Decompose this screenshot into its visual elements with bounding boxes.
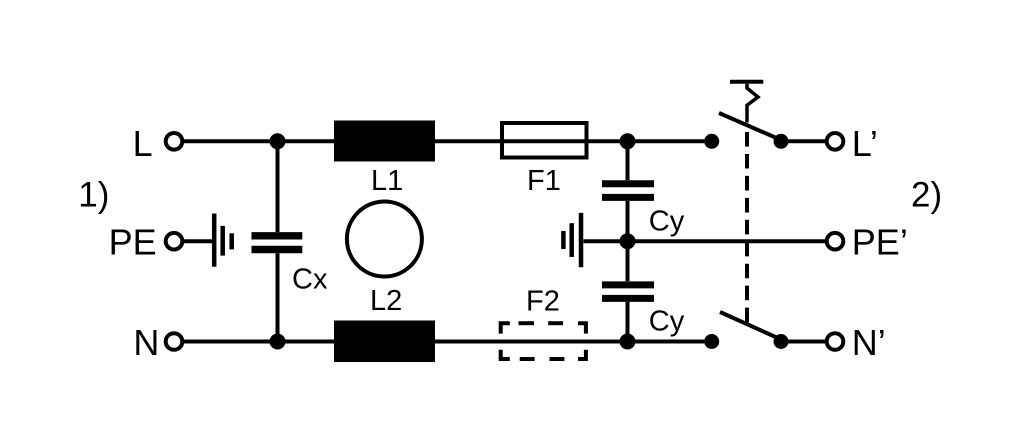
- svg-text:N’: N’: [852, 322, 886, 363]
- svg-text:F1: F1: [527, 165, 561, 197]
- svg-text:1): 1): [78, 176, 109, 215]
- svg-text:PE: PE: [109, 222, 157, 263]
- svg-text:L2: L2: [370, 285, 402, 317]
- svg-text:L1: L1: [371, 165, 403, 197]
- svg-text:PE’: PE’: [852, 222, 908, 263]
- svg-text:L: L: [133, 123, 153, 164]
- svg-text:L’: L’: [852, 123, 878, 164]
- svg-text:Cy: Cy: [649, 305, 685, 337]
- svg-text:Cx: Cx: [292, 264, 328, 296]
- svg-text:F2: F2: [526, 286, 560, 318]
- svg-text:Cy: Cy: [649, 205, 685, 237]
- svg-text:2): 2): [911, 176, 942, 215]
- svg-text:N: N: [133, 322, 159, 363]
